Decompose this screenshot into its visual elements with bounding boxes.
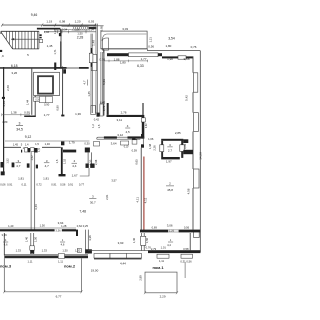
svg-text:0,30: 0,30 <box>84 141 90 145</box>
svg-text:3: 3 <box>18 122 20 126</box>
svg-text:45,8: 45,8 <box>167 188 173 192</box>
svg-text:2,81: 2,81 <box>105 194 109 200</box>
kitchen corner wall horizontal <box>24 116 36 118</box>
svg-text:0,10: 0,10 <box>124 147 129 149</box>
svg-text:1,45: 1,45 <box>13 142 19 146</box>
WC left wall <box>107 103 109 115</box>
svg-text:6,18: 6,18 <box>11 64 18 68</box>
left outer wall <box>3 67 5 174</box>
room 3/2,7 right wall <box>181 139 183 145</box>
svg-text:1,46: 1,46 <box>45 142 51 146</box>
svg-text:4,11: 4,11 <box>144 197 148 203</box>
svg-text:2,78: 2,78 <box>121 111 127 115</box>
svg-text:4,89: 4,89 <box>2 120 8 124</box>
svg-text:3,36: 3,36 <box>88 235 92 241</box>
svg-text:4,11: 4,11 <box>135 197 139 203</box>
svg-text:0,56: 0,56 <box>60 182 66 186</box>
bathroom divider wall pair <box>30 152 32 231</box>
pom divider wall right <box>141 233 143 250</box>
porch outline bottom-left <box>4 258 81 292</box>
svg-text:4,58: 4,58 <box>186 188 190 194</box>
wall block <box>59 33 62 36</box>
dimension line hall <box>5 140 90 142</box>
bathroom 3 top wall <box>63 150 76 153</box>
svg-text:0,49: 0,49 <box>2 101 6 107</box>
svg-text:0,80: 0,80 <box>183 143 187 149</box>
wall segment <box>89 27 97 29</box>
tick slashes pom.1 rect <box>144 291 146 294</box>
svg-text:2,7: 2,7 <box>168 148 173 152</box>
svg-text:0,95: 0,95 <box>99 25 103 31</box>
svg-text:1,50: 1,50 <box>145 237 149 243</box>
svg-text:1,67: 1,67 <box>72 173 78 177</box>
window right wall 4 <box>194 231 200 238</box>
svg-text:1,77: 1,77 <box>44 113 50 117</box>
wall thick top of stairwell <box>37 28 60 30</box>
right outer wall <box>199 51 201 252</box>
svg-text:1,33: 1,33 <box>42 249 48 253</box>
svg-text:3,03: 3,03 <box>122 27 128 31</box>
hatched wall band <box>72 27 89 30</box>
staircase top edge <box>1 30 39 32</box>
svg-text:3,06: 3,06 <box>167 224 173 228</box>
svg-text:1,50: 1,50 <box>40 223 46 227</box>
svg-text:0,58: 0,58 <box>184 57 190 61</box>
svg-text:3,54: 3,54 <box>168 37 175 41</box>
wall below room 2,28 <box>54 67 67 69</box>
svg-text:3,36: 3,36 <box>55 229 61 233</box>
svg-text:0,59: 0,59 <box>132 149 138 153</box>
svg-text:2,29: 2,29 <box>160 294 166 298</box>
svg-text:5,42: 5,42 <box>185 95 189 101</box>
svg-text:1,52: 1,52 <box>30 155 34 161</box>
bottom wall left section <box>4 253 88 255</box>
corridor wall below <box>90 67 92 113</box>
wall corridor bottom <box>98 136 140 138</box>
svg-text:1,50: 1,50 <box>33 236 37 242</box>
bathroom divider dark <box>61 147 63 174</box>
balcony top-right outline <box>101 31 147 49</box>
window band protruding <box>94 254 110 259</box>
svg-text:1,45: 1,45 <box>47 44 53 48</box>
wall left end vertical <box>103 49 105 53</box>
svg-text:0,92: 0,92 <box>145 123 148 128</box>
svg-text:2,28: 2,28 <box>77 36 84 40</box>
entry door box below balcony <box>102 38 108 50</box>
svg-text:пом.2: пом.2 <box>64 264 76 269</box>
svg-text:1,21: 1,21 <box>148 37 152 43</box>
svg-text:4,7: 4,7 <box>45 164 50 168</box>
svg-text:3,11: 3,11 <box>116 118 122 122</box>
svg-text:0,54: 0,54 <box>62 28 68 32</box>
svg-text:1,5: 1,5 <box>35 142 39 146</box>
room 3/2,7 bottom wall <box>161 157 180 159</box>
svg-text:4,4: 4,4 <box>167 243 171 247</box>
svg-text:0,62 0,25: 0,62 0,25 <box>77 224 89 228</box>
svg-text:1,45: 1,45 <box>87 91 91 97</box>
shaft inner box thick <box>38 76 53 93</box>
svg-text:3,57: 3,57 <box>111 178 117 182</box>
bottom wall mid thin <box>88 250 148 252</box>
svg-text:4,5: 4,5 <box>126 130 131 134</box>
door jamb dark <box>54 63 56 71</box>
svg-text:1,81: 1,81 <box>43 176 49 180</box>
svg-text:4,4: 4,4 <box>72 164 77 168</box>
svg-text:1,50: 1,50 <box>89 159 93 165</box>
svg-text:пом.1: пом.1 <box>152 265 164 270</box>
door swing corner <box>80 168 89 176</box>
svg-text:0,06: 0,06 <box>0 182 6 186</box>
svg-text:1,66: 1,66 <box>148 137 154 141</box>
vestibule wall verticals <box>95 24 97 114</box>
svg-text:0,72: 0,72 <box>36 182 42 186</box>
left outer wall bottom <box>3 233 5 255</box>
svg-text:6,77: 6,77 <box>56 295 62 299</box>
svg-text:7,48: 7,48 <box>79 209 86 213</box>
wall block right of stairs <box>40 34 42 36</box>
staircase direction arrow <box>11 38 39 40</box>
svg-text:0,75: 0,75 <box>102 105 106 111</box>
svg-text:0,98: 0,98 <box>59 20 65 24</box>
svg-text:3,64: 3,64 <box>111 141 117 145</box>
svg-text:1,19: 1,19 <box>46 20 52 24</box>
svg-text:4,44: 4,44 <box>120 262 126 266</box>
svg-text:1,40: 1,40 <box>132 237 136 243</box>
svg-text:0,76: 0,76 <box>146 246 152 250</box>
room 3/2,7 right blob <box>183 139 188 143</box>
svg-text:0,11: 0,11 <box>21 182 27 186</box>
red wall black partner <box>140 148 142 231</box>
sink box 0,54 <box>34 97 43 101</box>
junction blob <box>85 249 92 253</box>
shaft outer box <box>34 72 60 95</box>
WC door right <box>141 118 145 122</box>
svg-text:1,20: 1,20 <box>75 20 81 24</box>
room main left wall <box>103 50 105 116</box>
svg-text:0,91: 0,91 <box>7 182 13 186</box>
WC right wall <box>142 103 144 115</box>
svg-text:9,12: 9,12 <box>25 135 32 139</box>
window right wall 3 <box>194 169 200 188</box>
svg-text:0,42: 0,42 <box>94 118 100 122</box>
svg-text:19,00: 19,00 <box>91 269 99 273</box>
svg-text:1,50: 1,50 <box>74 28 80 32</box>
balcony inner rail <box>102 34 146 41</box>
entry door boxes <box>92 55 97 63</box>
fixture box below <box>39 39 42 42</box>
svg-text:9,46: 9,46 <box>31 13 38 17</box>
dimension line inner top-right room <box>105 60 149 62</box>
svg-text:0,42: 0,42 <box>100 100 106 104</box>
svg-text:3,93: 3,93 <box>118 241 124 245</box>
door box pom.2 bottom <box>77 248 81 252</box>
top wall mid thick bar <box>107 53 129 56</box>
wall blob right of gap <box>85 148 90 153</box>
dimension line kitchen <box>2 114 29 116</box>
bathroom door jambs <box>1 162 4 168</box>
red wall line <box>143 157 145 231</box>
WC top wall <box>107 115 144 117</box>
svg-text:2,85: 2,85 <box>175 131 181 135</box>
svg-text:1,38: 1,38 <box>11 111 17 115</box>
corridor wall <box>62 67 64 117</box>
svg-text:14,29: 14,29 <box>198 152 202 160</box>
wall stub to window wall <box>183 150 193 154</box>
svg-text:0,56: 0,56 <box>184 225 190 229</box>
svg-text:3,26: 3,26 <box>11 71 17 75</box>
svg-text:2,08: 2,08 <box>94 159 98 165</box>
corridor wall pair low <box>87 152 89 163</box>
svg-text:34,5: 34,5 <box>16 128 23 132</box>
main bottom wall of apartments <box>0 227 76 229</box>
fixtures below WC <box>121 141 129 145</box>
WC bottom wall <box>104 136 117 138</box>
dimension line 2 <box>44 31 96 33</box>
svg-text:1,5: 1,5 <box>97 124 101 128</box>
shaft room left wall <box>31 68 33 115</box>
door jamb kitchen <box>61 141 64 145</box>
svg-text:1,28: 1,28 <box>61 224 67 228</box>
svg-text:3,12: 3,12 <box>117 133 123 137</box>
svg-text:1,11: 1,11 <box>27 259 33 263</box>
window top wall right <box>178 56 186 59</box>
wall fills red wall top <box>141 134 144 137</box>
svg-text:0,65: 0,65 <box>134 159 138 165</box>
svg-text:1,52: 1,52 <box>6 158 10 164</box>
svg-text:1,30: 1,30 <box>62 249 68 253</box>
svg-text:4,6: 4,6 <box>61 242 65 246</box>
porch outline bottom-right <box>145 272 177 293</box>
svg-text:1,97: 1,97 <box>166 160 172 164</box>
porch boxes right <box>157 254 169 258</box>
bathroom 1 top wall thin <box>4 146 21 148</box>
svg-text:2,60: 2,60 <box>6 85 10 91</box>
svg-text:1,81: 1,81 <box>18 176 24 180</box>
bottom wall right section <box>148 250 201 253</box>
svg-text:2,89: 2,89 <box>139 275 143 281</box>
stub line below wall right <box>184 262 186 278</box>
svg-text:3,46: 3,46 <box>34 204 38 210</box>
svg-text:0,77: 0,77 <box>79 182 85 186</box>
staircase corner blob <box>0 50 2 52</box>
svg-text:1,80: 1,80 <box>120 61 126 65</box>
svg-text:1,33: 1,33 <box>16 249 22 253</box>
svg-text:0,91: 0,91 <box>51 182 57 186</box>
sink boxes <box>39 97 45 103</box>
svg-text:1,79: 1,79 <box>69 141 75 145</box>
svg-text:1,01: 1,01 <box>161 246 167 250</box>
dimension line top-left <box>2 24 96 26</box>
fixture box corridor bottom <box>94 142 100 147</box>
staircase diagonal <box>1 32 13 49</box>
door boxes at divider top <box>25 148 28 153</box>
staircase left edge <box>0 31 2 34</box>
svg-text:30,7: 30,7 <box>90 200 96 204</box>
svg-text:0,56: 0,56 <box>148 45 154 49</box>
bathroom 2 top wall thin <box>42 146 61 148</box>
svg-text:1,40: 1,40 <box>24 236 28 242</box>
svg-text:0,54: 0,54 <box>89 28 95 32</box>
svg-text:1,40: 1,40 <box>8 224 14 228</box>
pom divider wall left <box>30 233 32 255</box>
wall tick left <box>2 97 5 99</box>
svg-text:0,31 0,56: 0,31 0,56 <box>180 259 192 263</box>
svg-text:1,52: 1,52 <box>63 158 67 164</box>
svg-text:1,2: 1,2 <box>91 124 95 128</box>
svg-text:1,20: 1,20 <box>75 249 81 253</box>
staircase bottom edge <box>13 48 39 50</box>
window top wall mid <box>129 53 159 57</box>
door opening corridor <box>91 106 96 115</box>
right inner wall <box>190 56 193 250</box>
window right wall 1 <box>193 73 197 92</box>
window band bottom line <box>94 258 142 260</box>
window right wall 2 <box>194 113 199 132</box>
svg-text:1,80: 1,80 <box>165 44 171 48</box>
wall horizontal left top <box>0 67 54 69</box>
svg-text:1,5: 1,5 <box>37 148 41 152</box>
svg-text:1,77: 1,77 <box>141 57 147 61</box>
svg-text:,9: ,9 <box>1 54 4 58</box>
svg-text:0,80: 0,80 <box>56 105 60 111</box>
svg-text:1,44: 1,44 <box>26 99 30 105</box>
wall angle below door <box>97 113 100 117</box>
staircase treads <box>6 31 39 49</box>
top wall right thick bars <box>162 56 178 58</box>
svg-text:0,69: 0,69 <box>152 225 158 229</box>
svg-text:2,26: 2,26 <box>153 145 157 151</box>
svg-text:0,93: 0,93 <box>88 20 94 24</box>
svg-text:4,7: 4,7 <box>16 164 21 168</box>
top wall outer line <box>101 48 147 50</box>
room 3/2,7 left wall <box>161 141 163 145</box>
door room 2,28 <box>89 53 93 63</box>
wall vertical stairwell right <box>60 29 61 35</box>
svg-text:1,50: 1,50 <box>77 32 83 36</box>
pom.2 inner divider wall pair <box>84 230 86 254</box>
svg-text:1,90: 1,90 <box>167 57 173 61</box>
door in divider <box>141 236 146 245</box>
svg-text:1,71: 1,71 <box>53 49 57 55</box>
svg-text:4,7: 4,7 <box>83 80 87 85</box>
svg-text:0,90: 0,90 <box>44 103 50 107</box>
svg-text:1,11: 1,11 <box>58 260 64 264</box>
svg-text:1,4: 1,4 <box>25 142 29 146</box>
kitchen corner wall vertical <box>34 96 36 116</box>
svg-text:0,91: 0,91 <box>68 182 74 186</box>
room 3/2,7 top wall <box>161 139 183 141</box>
window in top wall <box>62 26 72 28</box>
room 2,28 right wall <box>90 34 92 48</box>
corridor wall blob top <box>63 69 66 73</box>
top wall of room 2,28 thin line <box>43 25 104 27</box>
svg-text:1,5: 1,5 <box>55 159 59 163</box>
wall stub <box>158 53 162 56</box>
svg-text:0,76: 0,76 <box>191 45 197 49</box>
svg-text:1,48: 1,48 <box>148 143 152 149</box>
svg-text:1,11: 1,11 <box>159 259 165 263</box>
svg-text:1,36: 1,36 <box>75 112 81 116</box>
svg-text:6,33: 6,33 <box>137 64 144 68</box>
svg-text:пом.3: пом.3 <box>0 263 12 268</box>
svg-text:1,26: 1,26 <box>169 228 175 232</box>
